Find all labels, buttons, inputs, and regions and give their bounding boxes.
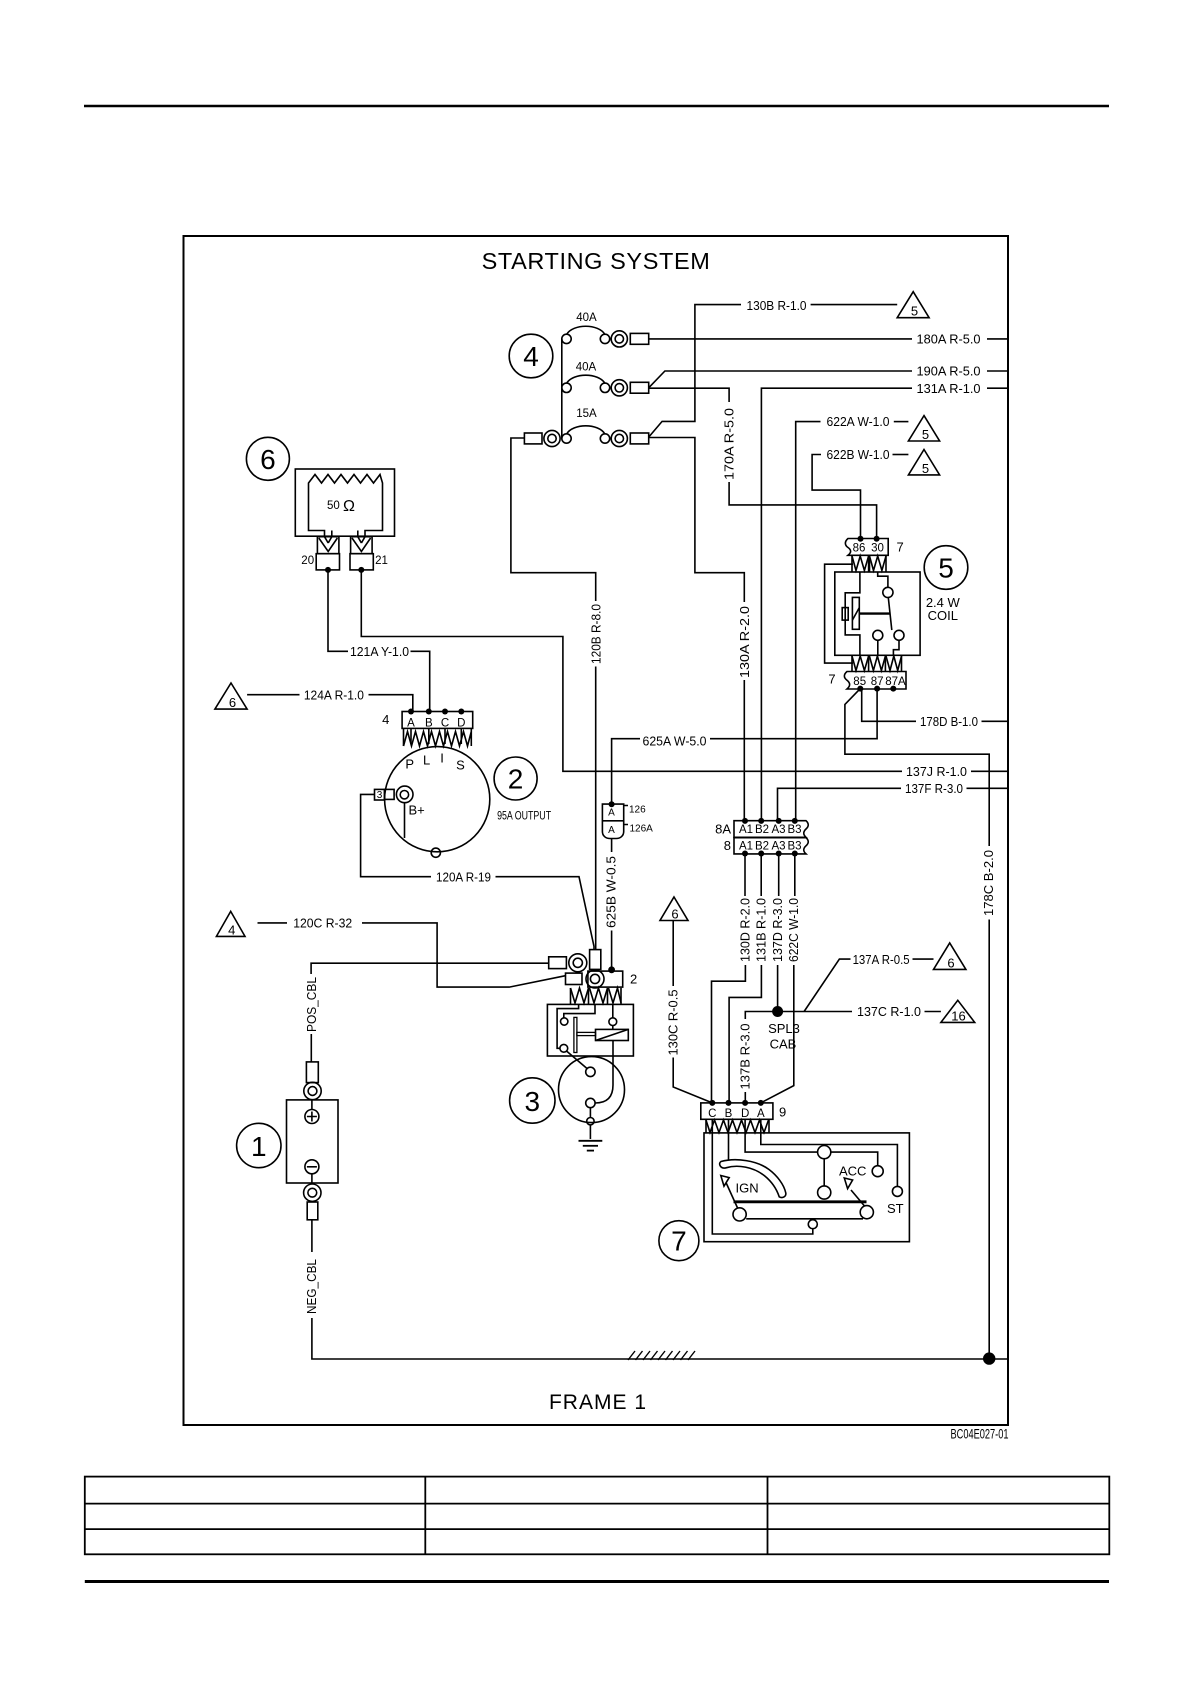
frame junction dot (178C to frame): [983, 1352, 995, 1364]
flag triangle 4 (120C): [216, 911, 245, 936]
wire 121A Y-1.0: [328, 570, 348, 651]
connector 126 / 126A (A-A inline): [602, 804, 628, 838]
coil return wire into starter: [595, 1041, 613, 1104]
svg-text:IGN: IGN: [736, 1181, 759, 1196]
wire 120C R-32: [258, 922, 288, 924]
svg-text:180A R-5.0: 180A R-5.0: [917, 332, 981, 347]
battery positive ring terminal: [306, 1062, 318, 1083]
junction dot 625B: [608, 966, 615, 973]
svg-text:120B R-8.0: 120B R-8.0: [588, 604, 603, 664]
rotor contact bar: [734, 1200, 867, 1203]
svg-text:B: B: [425, 717, 433, 729]
top page rule: [84, 105, 1109, 108]
fuse bus wire: [561, 339, 563, 439]
wire 130B R-1.0: [649, 305, 741, 438]
pin D internal wire: [745, 1133, 818, 1152]
ground symbol (starter): [579, 1141, 603, 1151]
svg-text:8: 8: [724, 838, 731, 853]
resistor element zigzag: [309, 475, 383, 490]
wire 178C B-2.0: [845, 689, 989, 846]
svg-text:NEG_CBL: NEG_CBL: [304, 1259, 319, 1314]
starter solenoid stud terminals (connector 2): [549, 950, 623, 1004]
svg-text:B2: B2: [755, 824, 769, 836]
switch body box: [704, 1133, 909, 1242]
ACC wiper arrow: [851, 1190, 865, 1206]
B+ stud terminal with connector 3: [375, 789, 385, 800]
svg-text:1: 1: [251, 1131, 267, 1162]
svg-text:ST: ST: [887, 1201, 904, 1216]
svg-text:Ω: Ω: [343, 498, 355, 515]
svg-text:622B W-1.0: 622B W-1.0: [827, 447, 890, 462]
svg-text:L: L: [423, 753, 430, 768]
svg-text:B3: B3: [787, 824, 801, 836]
svg-text:137A R-0.5: 137A R-0.5: [853, 952, 910, 967]
svg-text:126A: 126A: [630, 824, 654, 835]
wire 622B W-1.0: [812, 455, 860, 539]
pin 21 dot: [358, 567, 364, 573]
wire NEG_CBL: [311, 1220, 313, 1252]
flag triangle 6 (130C): [660, 897, 688, 921]
svg-text:7: 7: [671, 1226, 687, 1257]
fuse block F (circled 4): [509, 334, 553, 378]
svg-text:D: D: [457, 717, 465, 729]
svg-text:6: 6: [260, 444, 276, 475]
wire 180A R-5.0: [649, 338, 912, 340]
svg-text:124A R-1.0: 124A R-1.0: [304, 687, 364, 702]
relay K (circled 5): [825, 539, 921, 690]
svg-text:FRAME 1: FRAME 1: [549, 1391, 647, 1414]
svg-text:87: 87: [871, 676, 884, 688]
svg-text:A3: A3: [771, 824, 785, 836]
svg-text:137J R-1.0: 137J R-1.0: [906, 764, 967, 779]
svg-text:4: 4: [382, 712, 389, 727]
svg-text:130B R-1.0: 130B R-1.0: [747, 298, 807, 313]
svg-text:86: 86: [853, 543, 866, 555]
svg-text:40A: 40A: [576, 362, 597, 374]
pin dots 8A top row: [742, 818, 748, 824]
svg-text:137B R-3.0: 137B R-3.0: [738, 1024, 753, 1090]
pin dots C B D A: [709, 1100, 715, 1106]
flag triangle 6 (124A): [215, 683, 247, 709]
coil core rect: [842, 608, 848, 621]
svg-text:A3: A3: [771, 841, 785, 853]
svg-text:2: 2: [630, 971, 637, 986]
connector hatch: [706, 1120, 769, 1133]
svg-text:ACC: ACC: [839, 1164, 866, 1179]
svg-text:4: 4: [228, 922, 235, 937]
svg-text:625B W-0.5: 625B W-0.5: [604, 856, 619, 928]
solenoid switch contact: [609, 1018, 617, 1026]
battery negative ring terminal: [304, 1184, 321, 1201]
pin 87A dot: [890, 686, 896, 692]
connector 9 block: [701, 1103, 773, 1119]
svg-text:131B R-1.0: 131B R-1.0: [754, 898, 769, 962]
splice node SPL3 CAB: [772, 1006, 783, 1017]
flag triangle 5 (130B): [897, 292, 929, 318]
svg-text:D: D: [741, 1108, 749, 1120]
svg-text:131A R-1.0: 131A R-1.0: [917, 381, 981, 396]
svg-text:5: 5: [938, 553, 954, 584]
svg-text:40A: 40A: [576, 312, 597, 324]
wire 137C R-1.0: [783, 1011, 852, 1013]
svg-text:5: 5: [911, 304, 918, 319]
svg-text:2: 2: [508, 764, 524, 795]
battery BT (circled 1): [287, 963, 1008, 1359]
svg-text:7: 7: [828, 672, 835, 687]
alternator G (circled 2): [375, 712, 490, 858]
connector 7 bottom (pins 85 87 87A): [844, 672, 906, 690]
contact 87: [873, 630, 883, 640]
flag triangle 5 (622B): [908, 450, 939, 475]
svg-text:622C W-1.0: 622C W-1.0: [786, 898, 801, 962]
left bracket path: [825, 564, 853, 663]
svg-text:B+: B+: [409, 803, 425, 818]
svg-text:6: 6: [671, 907, 678, 922]
designator 1 in circle: [237, 1123, 281, 1167]
battery body: [287, 1100, 339, 1183]
coil armature rect with diagonal: [852, 597, 859, 629]
svg-text:16: 16: [951, 1008, 965, 1023]
svg-text:SPL3: SPL3: [768, 1021, 800, 1036]
wire 178D B-1.0: [862, 689, 916, 722]
svg-text:4: 4: [523, 341, 539, 372]
svg-text:625A W-5.0: 625A W-5.0: [643, 734, 707, 749]
resistor R 50-ohm (circled 6): [246, 437, 394, 570]
positive terminal symbol: [305, 1110, 319, 1124]
crimp terminal 20: [317, 537, 339, 554]
wire 625B W-0.5: [611, 839, 613, 970]
ACC branch: [831, 1152, 878, 1166]
svg-text:6: 6: [947, 955, 954, 970]
designator 7 in circle: [659, 1221, 699, 1261]
wire 622C W-1.0: [794, 854, 796, 897]
svg-text:87A: 87A: [885, 676, 906, 688]
svg-text:85: 85: [853, 676, 866, 688]
ring terminal upper (POS_CBL): [549, 957, 567, 969]
fuse F2 40A: [562, 375, 649, 396]
svg-text:CAB: CAB: [770, 1037, 797, 1052]
svg-text:121A Y-1.0: 121A Y-1.0: [350, 644, 409, 659]
wire 130C R-0.5: [672, 921, 674, 987]
connector block 2: [588, 971, 623, 987]
designator 2 in circle: [494, 757, 537, 800]
svg-text:A: A: [608, 808, 615, 819]
svg-text:137D R-3.0: 137D R-3.0: [770, 898, 785, 962]
svg-text:20: 20: [301, 555, 314, 567]
svg-text:126: 126: [629, 805, 646, 816]
negative terminal symbol: [305, 1160, 319, 1174]
wire 625A W-5.0: [710, 689, 877, 739]
switch arm: [888, 598, 892, 631]
svg-text:137F R-3.0: 137F R-3.0: [905, 781, 963, 796]
wire 137J R-1.0: [361, 570, 902, 771]
pin 20 dot: [325, 567, 331, 573]
svg-text:130C R-0.5: 130C R-0.5: [665, 990, 680, 1056]
svg-text:A1: A1: [739, 841, 753, 853]
pin 30 dot: [874, 536, 880, 542]
wire 137D R-3.0: [778, 854, 780, 897]
connector hatch: [404, 732, 472, 747]
wire 137F R-3.0: [778, 788, 902, 821]
wire 120B R-8.0: [511, 438, 596, 601]
svg-text:130D R-2.0: 130D R-2.0: [738, 898, 753, 962]
coil pin 86 internal wire: [845, 572, 860, 655]
pull-in coil with diagonal: [596, 1029, 629, 1040]
svg-text:30: 30: [871, 543, 884, 555]
solenoid hatch: [571, 988, 622, 1003]
svg-text:B3: B3: [787, 841, 801, 853]
svg-text:7: 7: [897, 540, 904, 555]
pin dots 8 bottom row: [742, 851, 748, 857]
stud lug: [590, 950, 601, 970]
svg-text:A: A: [757, 1108, 765, 1120]
svg-text:50: 50: [327, 500, 340, 512]
svg-text:622A W-1.0: 622A W-1.0: [827, 414, 890, 429]
starter relay (solenoid) box: [547, 1004, 633, 1103]
flag triangle 6 (137A): [934, 943, 966, 970]
flag triangle 5 (622A): [908, 416, 939, 441]
svg-text:A: A: [407, 717, 415, 729]
svg-text:178D B-1.0: 178D B-1.0: [920, 714, 978, 729]
svg-text:B: B: [725, 1108, 733, 1120]
crimp terminal 21: [351, 537, 373, 554]
svg-text:C: C: [708, 1108, 716, 1120]
connector 8A / 8 (bulkhead): [734, 821, 808, 854]
svg-text:BC04E027-01: BC04E027-01: [951, 1427, 1009, 1442]
pin C internal wire: [712, 1133, 813, 1234]
wire 131B R-1.0: [760, 854, 762, 897]
starter motor M (circled 3): [559, 1057, 625, 1139]
connector 7 top (pins 86 30): [845, 539, 888, 556]
relay body box: [835, 572, 920, 655]
designator 5 in circle: [924, 546, 968, 590]
svg-text:190A R-5.0: 190A R-5.0: [917, 364, 981, 379]
revision table: [85, 1477, 1110, 1555]
designator 3 in circle: [510, 1078, 555, 1123]
svg-text:120C R-32: 120C R-32: [293, 916, 352, 931]
resistor body box: [295, 469, 394, 536]
svg-text:COIL: COIL: [928, 608, 958, 623]
wire 120A R-19: [361, 794, 431, 876]
svg-text:120A R-19: 120A R-19: [436, 869, 491, 884]
svg-text:170A R-5.0: 170A R-5.0: [722, 408, 737, 480]
diagram border frame: [184, 236, 1009, 1425]
pin B internal wire: [728, 1133, 730, 1160]
svg-text:5: 5: [922, 461, 929, 476]
switch pin 30 internal wire: [878, 572, 888, 587]
pin 85 dot: [857, 686, 863, 692]
svg-text:6: 6: [229, 695, 236, 710]
svg-text:STARTING SYSTEM: STARTING SYSTEM: [482, 248, 711, 274]
svg-text:A: A: [608, 825, 615, 836]
svg-text:P: P: [405, 757, 414, 772]
contact 87A: [894, 630, 904, 640]
IGN contact crescent: [720, 1160, 786, 1198]
svg-text:I: I: [440, 751, 444, 766]
svg-text:130A R-2.0: 130A R-2.0: [737, 606, 752, 678]
svg-text:S: S: [456, 758, 465, 773]
frame ground hatch: [628, 1351, 695, 1360]
svg-text:POS_CBL: POS_CBL: [304, 977, 319, 1032]
svg-text:A1: A1: [739, 824, 753, 836]
ring terminal lower (120C): [566, 973, 583, 984]
svg-text:8A: 8A: [715, 822, 731, 837]
contact to starter diagonal: [567, 1051, 588, 1069]
pin 87 dot: [874, 686, 880, 692]
wire 622A W-1.0: [796, 422, 821, 821]
wire 130A R-2.0: [649, 438, 745, 603]
IGN wiper arrow: [726, 1183, 738, 1209]
pin A internal wire to ST: [761, 1133, 898, 1186]
wire 130D R-2.0: [744, 854, 746, 897]
svg-text:C: C: [441, 717, 449, 729]
svg-text:9: 9: [779, 1105, 786, 1120]
wire 190A R-5.0: [649, 371, 912, 388]
svg-text:B2: B2: [755, 841, 769, 853]
wire 124A R-1.0: [247, 694, 299, 696]
plunger T: [574, 1017, 577, 1052]
fuse F1 40A: [562, 326, 649, 347]
svg-text:15A: 15A: [576, 408, 597, 420]
wire 170A R-5.0: [649, 388, 729, 402]
wire POS_CBL: [311, 963, 549, 974]
ignition switch S (circled 7): [701, 1103, 910, 1242]
svg-text:3: 3: [377, 790, 383, 801]
svg-text:5: 5: [922, 427, 929, 442]
pin 86 dot: [858, 536, 864, 542]
alternator body circle: [385, 747, 490, 852]
hatch top: [852, 556, 886, 571]
connector 4 block: [402, 712, 473, 729]
fuse F3 15A: [524, 426, 648, 447]
hatch bottom: [852, 656, 902, 671]
svg-text:137C R-1.0: 137C R-1.0: [857, 1004, 921, 1019]
wire 137B R-3.0: [745, 1012, 777, 1020]
svg-text:21: 21: [375, 555, 388, 567]
pin dots connector 4: [408, 709, 414, 715]
svg-text:178C B-2.0: 178C B-2.0: [981, 850, 996, 916]
svg-text:95A OUTPUT: 95A OUTPUT: [497, 811, 551, 823]
bottom page rule: [85, 1580, 1109, 1583]
wire 131A R-1.0: [761, 388, 1007, 821]
flag triangle 16 (137C): [941, 1000, 975, 1022]
wire 137A R-0.5: [804, 959, 850, 1011]
svg-text:3: 3: [525, 1086, 541, 1117]
